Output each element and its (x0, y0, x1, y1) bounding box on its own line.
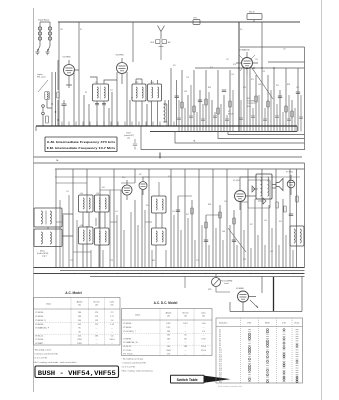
svg-text:C71: C71 (70, 260, 73, 262)
switch table header rule (216, 326, 303, 328)
svg-text:140†: 140† (166, 323, 171, 325)
capacitor C30 plates (175, 96, 180, 97)
junction dots V4 (238, 67, 240, 69)
IF transformer IFT3a winding (83, 198, 90, 209)
svg-text:C66: C66 (264, 220, 267, 222)
svg-text:V7 UY41 ..: V7 UY41 .. (123, 350, 133, 352)
wire bus right hook (296, 126, 298, 132)
svg-text:C63: C63 (222, 231, 225, 233)
aerial A1 down-lead arrows (38, 46, 51, 51)
junction dots on bus (61, 125, 62, 126)
wire stair y138.5 (218, 132, 305, 139)
transformer T11 can (34, 229, 62, 247)
wire x74 anode drop (74, 70, 79, 126)
switch table outer box (216, 318, 303, 383)
svg-text:M.W: M.W (151, 42, 155, 44)
IF transformer IFT5a winding (156, 199, 163, 210)
svg-text:Switch Table: Switch Table (177, 378, 198, 382)
table ACM group rules (34, 323, 121, 335)
svg-text:C37: C37 (226, 59, 229, 61)
page right edge line (321, 0, 323, 400)
coil L1 winding (47, 93, 48, 99)
svg-text:V2 EF80: V2 EF80 (116, 55, 125, 57)
transformer T12 can (256, 174, 272, 199)
svg-text:(FM): (FM) (247, 106, 251, 108)
IF transformer IFT5b can (152, 228, 167, 245)
svg-text:V1 EF80: V1 EF80 (63, 57, 72, 59)
svg-text:(V): (V) (167, 315, 170, 317)
svg-text:V4 EF80 ..: V4 EF80 .. (35, 324, 45, 326)
capacitor C3 block (162, 40, 167, 44)
tube V2 envelope (117, 63, 128, 74)
wire bottom verticals 4 (241, 169, 290, 268)
svg-text:C28: C28 (186, 77, 189, 79)
IF transformer IFT5a can (152, 196, 167, 213)
svg-text:F.M.: F.M. (248, 323, 252, 325)
svg-text:C36: C36 (231, 74, 234, 76)
svg-text:C20: C20 (135, 82, 138, 84)
svg-text:C24: C24 (151, 82, 154, 84)
resistor R18 (217, 108, 219, 114)
bus chassis 1 (34, 267, 305, 269)
table ACDC outer box (122, 309, 213, 356)
resistor R1 (57, 92, 59, 98)
page left edge line (33, 8, 35, 392)
wire eye feed (230, 277, 302, 312)
svg-text:C50uF: C50uF (126, 133, 131, 135)
svg-text:Valve: Valve (46, 304, 52, 306)
aerial A1 coil loops (38, 27, 41, 30)
svg-text:V5 UL41: V5 UL41 (233, 180, 240, 182)
wire V2 side drops (112, 72, 127, 126)
wire pointer to label (38, 80, 48, 92)
capacitor C2 block (156, 40, 161, 44)
svg-text:V1 EF80 ..: V1 EF80 .. (35, 312, 45, 314)
resistor R56 (233, 218, 235, 224)
svg-text:R33: R33 (276, 85, 279, 87)
ground (aerial right) (46, 52, 50, 55)
svg-text:C61: C61 (224, 201, 227, 203)
wire stair y143 (175, 132, 305, 144)
table ACM outer box (34, 298, 121, 346)
tube V5 envelope (235, 191, 246, 202)
svg-text:A.C. Model: A.C. Model (65, 291, 82, 295)
wire eye arrow (250, 300, 258, 308)
svg-text:F.M. Intermediate Frequency: F.M. Intermediate Frequency 10.7 Mc/s (47, 146, 116, 150)
svg-text:C79: C79 (243, 259, 246, 261)
svg-text:A.C. D.C. Model: A.C. D.C. Model (154, 301, 178, 305)
IF transformer IFT1 tuning line (100, 86, 102, 100)
svg-text:Switches: Switches (219, 322, 227, 325)
svg-text:* No reading can be got.: * No reading can be got. (122, 358, 145, 361)
switch table pointer box (171, 375, 205, 383)
transformer T10 windings (41, 211, 51, 224)
junction dots tuner (51, 103, 52, 104)
svg-text:R40 2k: R40 2k (249, 12, 255, 14)
svg-text:V5 EABC80 { §: V5 EABC80 { § (35, 327, 50, 330)
table ACDC group rules (122, 334, 213, 346)
svg-text:Anode: Anode (77, 301, 84, 304)
svg-text:Anode: Anode (166, 312, 173, 315)
aerial A1 dipole feeder wires (40, 22, 50, 46)
wire AF bundle 2 (200, 70, 230, 132)
coil L9 return (164, 100, 167, 122)
resistor R16 (205, 99, 207, 105)
terminal node T2 (42, 112, 45, 115)
svg-text:R2: R2 (80, 29, 82, 31)
svg-text:† Junction switched to F.M.: † Junction switched to F.M. (34, 353, 59, 356)
svg-text:C44: C44 (296, 87, 299, 89)
tube V3b envelope (139, 182, 147, 190)
IF transformer IFT4a winding (83, 230, 90, 241)
svg-text:V3 UCH81 { †: V3 UCH81 { † (123, 331, 136, 333)
tube V1b electrodes (124, 180, 130, 200)
svg-text:R59: R59 (279, 221, 282, 223)
svg-text:only 1: only 1 (42, 255, 47, 257)
svg-text:V3: V3 (139, 174, 141, 176)
tube V4 electrodes (236, 52, 258, 75)
svg-text:R47: R47 (186, 214, 189, 216)
wire HT rail y47 (240, 46, 305, 48)
wire bottom extra verticals 1 (60, 190, 131, 268)
resistor R1b (46, 116, 49, 123)
title box BUSH VHF54 VHF55 (35, 366, 119, 378)
capacitor C5 plates (62, 100, 67, 110)
svg-text:C58: C58 (172, 211, 175, 213)
bus chassis 4 (90, 276, 305, 278)
svg-text:R26: R26 (233, 64, 236, 66)
wire vertical x262 upper (261, 22, 263, 47)
switch table pointer arrow (204, 376, 231, 383)
resistor R52 (205, 222, 207, 228)
wire bottom horizontals (110, 177, 262, 215)
wire diagonal AF takeoff (252, 68, 273, 99)
wire IFT2 pins (136, 79, 158, 126)
svg-text:V4 EF80 ..: V4 EF80 .. (123, 338, 133, 340)
svg-text:C31: C31 (184, 91, 187, 93)
wire HT rail y62 (268, 61, 305, 63)
bus secondary (150, 131, 297, 133)
svg-text:C38: C38 (262, 71, 265, 73)
svg-text:L14: L14 (80, 193, 83, 195)
svg-text:V3 EF80 ‡ {: V3 EF80 ‡ { (35, 320, 46, 322)
resistor R14 (193, 106, 195, 112)
svg-text:R3: R3 (85, 92, 87, 94)
svg-text:Dipole Aerial: Dipole Aerial (38, 19, 50, 22)
svg-text:210.0: 210.0 (201, 350, 207, 352)
IF transformer IFT1 can (93, 84, 109, 101)
svg-text:Screen: Screen (182, 313, 188, 315)
wire vertical x79 (78, 22, 80, 126)
resistor R32 (267, 101, 269, 107)
wire V1 cathode drop (66, 82, 72, 88)
wire bottom extra verticals 3 (202, 225, 293, 268)
svg-text:V7 EZ40 ..: V7 EZ40 .. (35, 339, 45, 341)
transformer T10 can (34, 208, 62, 227)
wire bottom verticals 1 (56, 169, 121, 268)
aerial A2 FM dipole (158, 26, 165, 40)
svg-text:170°: 170° (166, 327, 170, 329)
wire AF bundle 1 (171, 68, 194, 132)
junction dots bottom buses (65, 267, 66, 268)
wire bottom extra verticals 2 (138, 182, 195, 268)
wire HT feed dark x239 (238, 22, 240, 132)
tube V6 magic eye envelope (238, 291, 249, 302)
resistor R20 (229, 101, 231, 107)
svg-text:R29: R29 (251, 79, 254, 81)
svg-text:R24: R24 (210, 67, 213, 69)
wire speaker lead thick (273, 277, 275, 311)
tube V3b electrodes (141, 177, 146, 195)
tube V1 electrodes (66, 60, 73, 82)
transformer T11 windings (41, 232, 51, 244)
svg-text:100†: 100† (183, 323, 188, 325)
svg-text:R7: R7 (131, 98, 133, 100)
svg-text:HT+: HT+ (240, 29, 243, 31)
wire right edge drop x304.5 (304, 47, 306, 150)
wire right edge verticals (297, 163, 305, 268)
svg-text:R42: R42 (102, 187, 105, 189)
wire right bundle 1 (244, 47, 268, 132)
svg-text:BUSH - VHF54,VHF55: BUSH - VHF54,VHF55 (38, 370, 116, 377)
svg-text:C22: C22 (148, 102, 151, 104)
IF transformer IFT5b winding (156, 231, 163, 242)
svg-text:C45: C45 (258, 84, 261, 86)
table ACDC header rule (122, 319, 213, 321)
svg-text:circuit: circuit (224, 282, 229, 285)
resistor R34 (285, 106, 287, 112)
table ACM column rules (71, 298, 105, 346)
IF transformer IFT2b can (148, 84, 162, 101)
wire IFT3/4 pins (83, 212, 105, 268)
resistor R60 (276, 202, 278, 208)
svg-text:‡ 1.5 V on F.M.: ‡ 1.5 V on F.M. (34, 358, 48, 360)
wire stair y149.5 (141, 126, 305, 150)
node I marker (159, 153, 161, 159)
wire A2 stem (159, 44, 164, 60)
svg-text:VR1: VR1 (208, 289, 212, 291)
tube V7 electrodes (289, 175, 294, 195)
svg-text:V4 EABC80: V4 EABC80 (239, 49, 251, 52)
wire IFT5 pins (156, 213, 162, 268)
svg-text:§ A.C. reading : total normal: § A.C. reading : total normal (less). (122, 370, 154, 373)
svg-text:† Junction switched to F.M.: † Junction switched to F.M. (122, 362, 147, 365)
IF transformer IFT3b winding (99, 198, 106, 209)
wire tuner extra verticals (84, 92, 169, 126)
svg-text:F.M. aerial: F.M. aerial (37, 77, 46, 79)
capacitor C62 plates (204, 240, 208, 241)
svg-text:* Recording current.: * Recording current. (34, 349, 53, 352)
resistor R12 (181, 102, 183, 108)
wire bus left hook (35, 126, 37, 131)
wire bottom diagonal (228, 228, 246, 252)
wire V4 radials (239, 55, 255, 71)
terminal node T1 (42, 105, 45, 108)
svg-text:(V): (V) (184, 315, 187, 317)
svg-text:V6 EM80: V6 EM80 (236, 288, 244, 290)
svg-text:V6 EL41 ..: V6 EL41 .. (35, 335, 45, 337)
coil L9 winding (164, 104, 166, 122)
capacitor C40 plates (278, 96, 282, 97)
svg-text:‡ 1.2 V on F.M.: ‡ 1.2 V on F.M. (122, 367, 136, 369)
wire vertical x59 (58, 22, 60, 126)
wire AF extra verticals (179, 85, 233, 132)
svg-text:R39: R39 (287, 84, 290, 86)
IF note box (45, 137, 117, 152)
svg-text:M.W.: M.W. (265, 323, 270, 325)
svg-text:C68: C68 (270, 251, 273, 253)
capacitor C34 plates (222, 90, 226, 91)
svg-text:V7 EY51: V7 EY51 (286, 172, 293, 174)
diode MR1 (252, 186, 258, 192)
wire long y169 (55, 168, 305, 170)
svg-text:V6 UL41 ..: V6 UL41 .. (123, 346, 133, 348)
tube V1 envelope (64, 65, 75, 76)
svg-text:L18: L18 (80, 225, 83, 227)
wire right extra verticals (241, 75, 301, 132)
capacitor C60 plates (176, 210, 180, 211)
svg-text:FS1: FS1 (194, 18, 197, 20)
capacitor C70 plates (289, 214, 293, 216)
IF transformer IFT1 secondary (104, 87, 105, 98)
tube V2 electrodes (119, 58, 126, 84)
wire long y163 (34, 162, 305, 164)
wire right bundle 2 (274, 68, 298, 132)
wire IFT1 pins (90, 77, 112, 126)
svg-text:Cath.: Cath. (110, 301, 115, 304)
wire HT top rail (58, 21, 300, 23)
svg-text:FS2: FS2 (60, 29, 63, 31)
svg-text:C39: C39 (255, 59, 258, 61)
svg-text:R28: R28 (243, 87, 246, 89)
IF transformer IFT3a can (79, 195, 94, 212)
resistor R62 (284, 206, 286, 212)
svg-text:S24: S24 (219, 381, 222, 383)
svg-text:C12: C12 (110, 90, 113, 92)
ground (aerial left) (36, 52, 40, 55)
wire dropper to rail (253, 20, 255, 22)
svg-text:L.W.: L.W. (282, 323, 287, 325)
tube V7 rectifier envelope (287, 180, 295, 188)
wire left stub below bus (184, 277, 186, 289)
table ACDC column rules (160, 309, 194, 356)
svg-text:TH. Therm ..: TH. Therm .. (123, 353, 135, 356)
wire V5 to T12 (240, 177, 256, 196)
resistor R64 (296, 196, 298, 202)
svg-text:Loptics: Loptics (37, 73, 43, 76)
svg-text:S14: S14 (168, 176, 171, 178)
svg-text:R53: R53 (208, 204, 211, 206)
svg-text:Screen: Screen (93, 302, 99, 304)
subcircuit ratio detector box (248, 180, 270, 208)
IF transformer IFT2b winding (152, 87, 159, 98)
switch table column rules (241, 318, 293, 383)
svg-text:1.7†: 1.7† (110, 316, 114, 318)
wire long y157 (34, 156, 303, 158)
svg-text:V1 EF80 ..: V1 EF80 .. (123, 323, 133, 325)
svg-text:Valve: Valve (135, 315, 141, 317)
svg-text:C77: C77 (196, 260, 199, 262)
svg-text:§ A.C. reading, each anode : t: § A.C. reading, each anode : total curre… (34, 361, 78, 364)
tube V4 envelope (242, 58, 253, 69)
svg-text:only: only (127, 137, 130, 139)
capacitor C42 plates (296, 92, 300, 93)
svg-text:240.0: 240.0 (109, 339, 115, 341)
tube V6 electrodes (240, 295, 257, 312)
bus chassis 2 (60, 270, 305, 272)
IF transformer IFT2a can (132, 84, 146, 101)
svg-text:A.M. Intermediate Frequency: A.M. Intermediate Frequency 470 kc/s (47, 140, 116, 144)
capacitor C50 (133, 139, 137, 150)
capacitor C9 trimmers (95, 104, 106, 105)
wire tuner links (43, 60, 58, 126)
bus HT- main (36, 125, 297, 127)
svg-text:C55: C55 (115, 211, 118, 213)
resistor R50 (191, 208, 193, 214)
resistor R54 (219, 212, 221, 218)
IF transformer IFT3b can (95, 195, 110, 212)
svg-text:(V): (V) (78, 304, 81, 306)
junction dots on bus 2 (185, 131, 186, 132)
transformer T12 windings (261, 177, 269, 196)
capacitor C32 plates (198, 100, 202, 101)
svg-text:125.0: 125.0 (201, 346, 207, 348)
resistor R36 (291, 111, 293, 117)
potentiometer VR1 (212, 278, 221, 287)
potentiometer VR1 wiper (213, 274, 230, 293)
svg-text:(V): (V) (95, 304, 98, 306)
svg-text:R44: R44 (146, 205, 149, 207)
wire bottom verticals 2 (135, 169, 185, 268)
svg-text:Gram.: Gram. (294, 323, 300, 325)
svg-text:C52: C52 (66, 191, 69, 193)
resistor R30 (255, 96, 257, 102)
capacitor glyphs AF row (177, 116, 229, 120)
IF transformer IFT4b can (95, 228, 110, 245)
svg-text:V8 6BR7 ..: V8 6BR7 .. (35, 343, 45, 345)
svg-text:(V): (V) (111, 304, 114, 306)
svg-text:V2 EF80 ..: V2 EF80 .. (123, 327, 133, 329)
resistor R40 dropper above rail (247, 14, 262, 20)
tube V5 electrodes (237, 183, 244, 210)
svg-text:(V): (V) (202, 315, 205, 317)
svg-text:R25: R25 (208, 87, 211, 89)
wire bottom link horizontals (56, 183, 152, 252)
wire can links (48, 214, 73, 236)
wire x64 lower (63, 110, 65, 126)
IF transformer IFT4b winding (99, 231, 106, 242)
transformer T13 can (290, 226, 304, 246)
wire bottom verticals 3 (192, 169, 234, 268)
svg-text:C47: C47 (283, 49, 286, 51)
transformer T13 winding (294, 229, 301, 243)
IF transformer IFT4a can (79, 227, 94, 244)
wire vertical x133 (132, 22, 134, 62)
tube V1b envelope (122, 185, 132, 195)
wire bottom rail y177 (55, 176, 300, 178)
diode MR2 (258, 198, 266, 204)
speaker LS1 (276, 179, 283, 191)
svg-text:R21: R21 (173, 65, 176, 67)
transformer T10 core lines (46, 211, 47, 225)
svg-text:L16: L16 (96, 193, 99, 195)
svg-text:V2 EF80 ..: V2 EF80 .. (35, 316, 45, 318)
capacitor glyphs right row (239, 116, 303, 120)
svg-text:C73: C73 (110, 260, 113, 262)
wire stair y134.5 (228, 132, 305, 135)
coil L1 frame (45, 92, 49, 100)
fuse FS1 on rail (193, 20, 200, 25)
